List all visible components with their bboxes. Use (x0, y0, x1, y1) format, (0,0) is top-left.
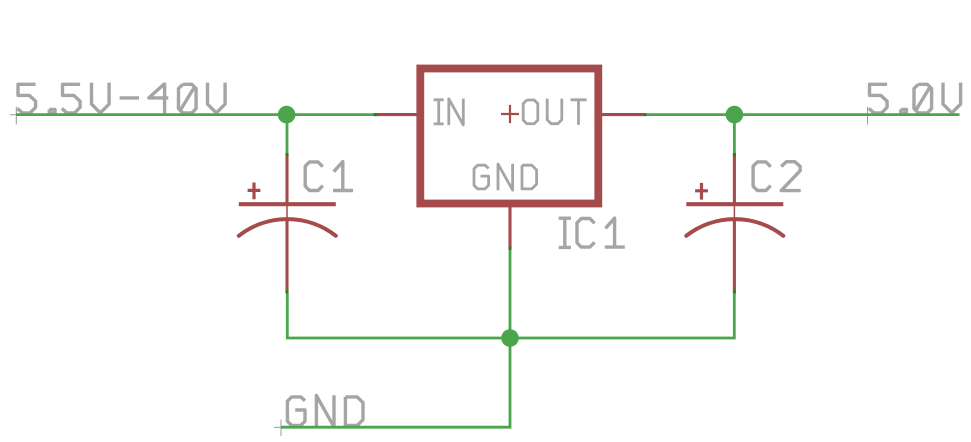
capacitor C2 bottom pin lead (733, 219, 736, 292)
junction overlap C2 bottom pin / ground rail (733, 290, 736, 293)
net label origin cross 5.0V (861, 107, 874, 125)
wire net VOUT top-right horizontal (644, 113, 960, 116)
net label 5.5V-40V (17, 83, 225, 115)
pin name IN (434, 99, 464, 126)
capacitor C2 curved bottom plate (686, 219, 783, 236)
pin GND stub of IC1 (508, 206, 511, 249)
pin IN stub of IC1 (375, 113, 419, 116)
node junction VOUT / C2 (726, 106, 744, 124)
wire VIN branch down to C1 (286, 113, 289, 155)
wire bottom ground rail C1 to C2 (287, 293, 734, 338)
capacitor C1 top pin lead (285, 155, 288, 205)
capacitor C1 thin lead between plates (286, 204, 288, 221)
voltage regulator IC1 body rectangle (420, 69, 598, 204)
net label GND bottom (287, 395, 363, 427)
wire GND pin down to rail (509, 248, 512, 339)
wire rail junction down and left to GND label (281, 338, 510, 427)
junction overlap C1 bottom pin / ground rail (285, 290, 288, 293)
junction overlap OUT pin / VOUT net (643, 113, 646, 116)
junction overlap C1 top pin / VIN branch (285, 153, 288, 156)
capacitor C2 thin lead between plates (733, 204, 735, 221)
pin name OUT (523, 99, 586, 125)
wire VOUT branch down to C2 (733, 113, 736, 155)
node junction VIN / C1 (278, 106, 296, 124)
reference designator C1 (305, 162, 353, 191)
capacitor C2 top pin lead (733, 155, 736, 205)
capacitor C2 top plate (686, 202, 783, 206)
pin OUT stub of IC1 (601, 113, 645, 116)
node junction ground rail (501, 329, 519, 347)
capacitor C1 curved bottom plate (239, 219, 336, 236)
junction overlap C2 top pin / VOUT branch (733, 153, 736, 156)
pin name GND inside IC1 (474, 164, 537, 191)
pin polarity plus marker at OUT (501, 105, 519, 123)
net label origin cross 5.5V-40V (10, 107, 23, 125)
junction overlap IN pin / VIN net (374, 113, 377, 116)
reference designator IC1 (559, 218, 625, 247)
wire net VIN top-left horizontal (16, 113, 376, 116)
capacitor C2 polarity plus sign (695, 183, 708, 200)
capacitor C1 polarity plus sign (248, 183, 261, 200)
reference designator C2 (753, 162, 801, 191)
capacitor C1 bottom pin lead (285, 219, 288, 292)
capacitor C1 top plate (239, 202, 336, 206)
junction overlap GND pin / ground net (508, 247, 511, 250)
net label origin cross GND (274, 420, 289, 437)
net label 5.0V (869, 83, 961, 114)
